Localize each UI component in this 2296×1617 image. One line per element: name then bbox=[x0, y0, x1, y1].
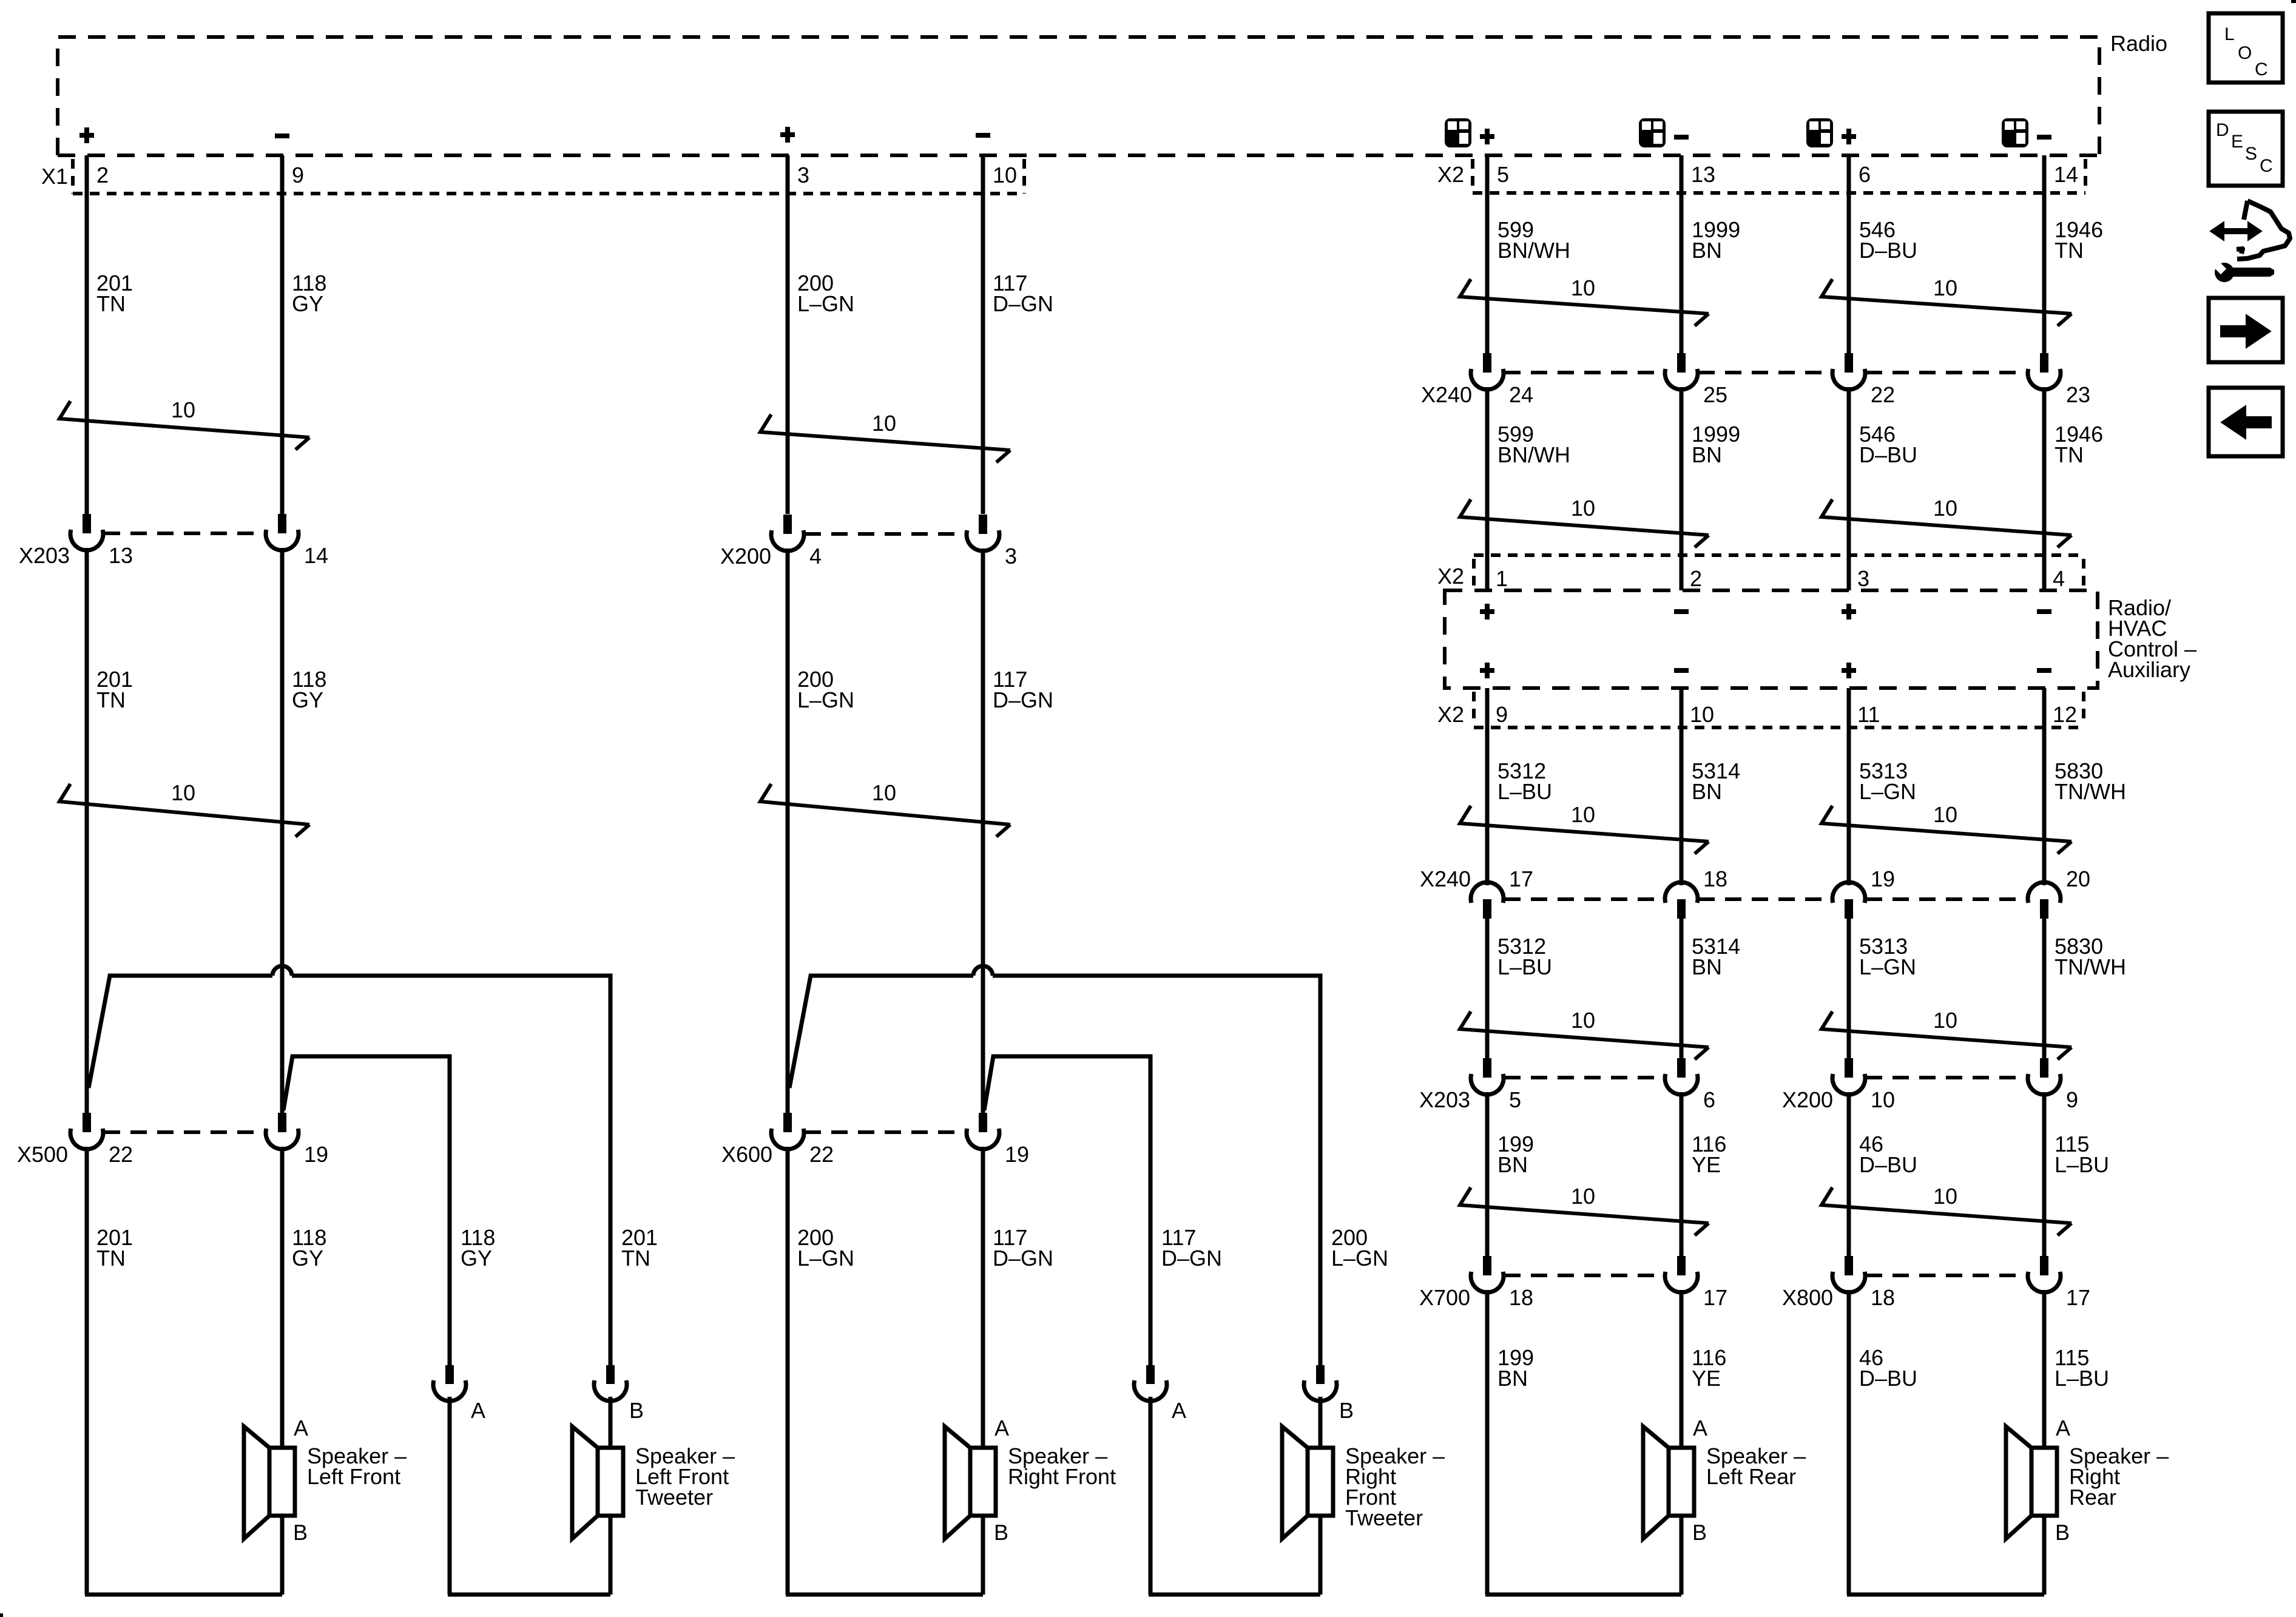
splice branch wire (117 D-GN to tweeter A) bbox=[984, 1056, 1150, 1365]
wire label 1999 BN (left rear -, seg2) bbox=[1692, 422, 1740, 467]
svg-text:A: A bbox=[1693, 1416, 1707, 1440]
splice branch wire (201 TN to tweeter B) bbox=[89, 966, 610, 1365]
icon back arrow box bbox=[2209, 388, 2283, 456]
svg-text:A: A bbox=[294, 1416, 308, 1440]
wire label 117 D–GN (RF tweeter A stub) bbox=[1161, 1225, 1222, 1271]
wire 200 L-GN (X1-3 to X200-4) bbox=[786, 155, 790, 514]
wire label 116 YE (left rear -, seg4) bbox=[1692, 1345, 1726, 1391]
svg-text:9: 9 bbox=[292, 163, 304, 187]
svg-text:GY: GY bbox=[292, 291, 323, 316]
inline connector X203 (pins 5/6) bbox=[1419, 1058, 1715, 1112]
wire 5314 BN (X240-18 down) bbox=[1680, 919, 1684, 1058]
wire label 5830 TN/WH (aux right rear -, seg1) bbox=[2055, 758, 2126, 804]
connector X2 label bbox=[1437, 162, 1464, 187]
wire label 5312 L–BU (aux left rear +, seg1) bbox=[1497, 758, 1552, 804]
wire 116 YE (X700-17 to speaker LR A) bbox=[1680, 1290, 1684, 1447]
pin 10 label bbox=[1690, 702, 1714, 727]
wire 118 GY (X203-14 to X500-19) bbox=[280, 548, 285, 1113]
inline connector X203 (pins 13/14) bbox=[19, 514, 328, 568]
icon forward arrow box bbox=[2209, 298, 2283, 362]
svg-text:X2: X2 bbox=[1437, 564, 1464, 589]
wire label 116 YE (left rear -, seg3) bbox=[1692, 1132, 1726, 1177]
svg-text:A: A bbox=[1172, 1398, 1186, 1423]
pin 1 label bbox=[1496, 566, 1508, 591]
splice branch wire (118 GY to tweeter A) bbox=[283, 1056, 450, 1365]
inline connector X600 (pins 22/19) bbox=[721, 1113, 1029, 1167]
wire 115 L-BU (X200-9 to X800-17) bbox=[2042, 1092, 2047, 1256]
wire label 115 L–BU (right rear -, seg4) bbox=[2055, 1345, 2109, 1391]
connector X2 body (dotted) bbox=[1473, 159, 2085, 193]
wire label 200 L–GN (right front +, middle) bbox=[797, 667, 854, 712]
pin 4 label bbox=[2053, 566, 2065, 591]
radio + terminal (left front +) bbox=[79, 127, 94, 143]
svg-text:17: 17 bbox=[1703, 1285, 1727, 1310]
svg-text:YE: YE bbox=[1692, 1366, 1721, 1391]
wire label 201 TN (left front +, upper) bbox=[96, 271, 133, 316]
wire 201 TN (X203-13 to X500-22) bbox=[85, 548, 89, 1113]
svg-text:19: 19 bbox=[304, 1142, 328, 1167]
wire 5314 BN (X2-10 down) bbox=[1680, 727, 1684, 885]
svg-text:X2: X2 bbox=[1437, 162, 1464, 187]
pin 13 label (X2) bbox=[1691, 162, 1715, 187]
icon DESC box bbox=[2209, 112, 2283, 186]
svg-text:D–GN: D–GN bbox=[1161, 1246, 1222, 1271]
wire stub X2-1 to HVAC bbox=[1485, 555, 1490, 590]
svg-text:E: E bbox=[2231, 132, 2243, 152]
pin 11 label bbox=[1857, 702, 1880, 727]
wire speaker RR bottom loop bbox=[1847, 1516, 2044, 1595]
svg-text:X200: X200 bbox=[720, 544, 771, 569]
svg-text:10: 10 bbox=[993, 163, 1017, 187]
svg-text:B: B bbox=[1692, 1520, 1707, 1545]
svg-text:S: S bbox=[2245, 144, 2257, 164]
svg-text:L–BU: L–BU bbox=[2055, 1152, 2109, 1177]
inline connector X700 (pins 18/17) bbox=[1419, 1256, 1727, 1310]
wire 201 TN (X1-2 to X203-13) bbox=[85, 155, 89, 514]
svg-text:C: C bbox=[2260, 156, 2273, 176]
svg-text:10: 10 bbox=[1571, 275, 1595, 300]
wire label 1999 BN (left rear -, seg1) bbox=[1692, 217, 1740, 263]
wire label 46 D–BU (right rear +, seg3) bbox=[1859, 1132, 1917, 1177]
connector X2 (HVAC top, dotted) bbox=[1474, 555, 2085, 587]
svg-text:X2: X2 bbox=[1437, 702, 1464, 727]
radio + terminal (right front +) bbox=[780, 127, 795, 143]
terminal B ring at x=2176 bbox=[1304, 1365, 1354, 1423]
svg-text:10: 10 bbox=[1933, 1184, 1957, 1209]
svg-text:TN/WH: TN/WH bbox=[2055, 779, 2126, 804]
speaker Left Front Tweeter bbox=[572, 1426, 735, 1539]
wire 5830 TN/WH (X2-12 down) bbox=[2042, 727, 2047, 885]
svg-text:B: B bbox=[994, 1520, 1008, 1545]
svg-text:10: 10 bbox=[1933, 802, 1957, 827]
inline connector X240 (pins 17/18/19/20) bbox=[1420, 866, 2090, 919]
terminal A ring at x=1896 bbox=[1134, 1365, 1186, 1423]
svg-text:23: 23 bbox=[2066, 382, 2090, 407]
svg-text:13: 13 bbox=[109, 543, 133, 568]
wire 1946 TN (X2-14 to X240-23) bbox=[2042, 155, 2047, 353]
wire 200 L-GN (X600-22 to speaker RF B) bbox=[786, 1147, 790, 1595]
svg-text:D: D bbox=[2216, 120, 2229, 140]
page dot artifact bottom-left bbox=[0, 1613, 3, 1617]
svg-text:10: 10 bbox=[171, 397, 195, 422]
svg-text:20: 20 bbox=[2066, 866, 2090, 891]
svg-text:14: 14 bbox=[2054, 162, 2078, 187]
svg-text:10: 10 bbox=[1571, 1008, 1595, 1033]
svg-text:10: 10 bbox=[1571, 802, 1595, 827]
wire label 199 BN (left rear +, seg4) bbox=[1497, 1345, 1534, 1391]
wire label 200 L–GN (RF tweeter B stub) bbox=[1331, 1225, 1388, 1271]
twisted-pair crossing right pair A lower bbox=[1460, 1184, 1709, 1235]
pin 12 label bbox=[2053, 702, 2077, 727]
svg-text:6: 6 bbox=[1703, 1087, 1715, 1112]
svg-text:D–BU: D–BU bbox=[1859, 238, 1917, 263]
wire label 117 D–GN (right front -, middle) bbox=[993, 667, 1053, 712]
svg-text:BN: BN bbox=[1692, 442, 1722, 467]
page dot artifact top-right bbox=[2291, 0, 2296, 3]
wire RF tweeter A stub down bbox=[1149, 1397, 1153, 1595]
wire label 201 TN (left front +, lower) bbox=[96, 1225, 133, 1271]
svg-text:22: 22 bbox=[809, 1142, 834, 1167]
HVAC + (pin9) bbox=[1480, 663, 1494, 678]
inline connector X500 (pins 22/19) bbox=[17, 1113, 328, 1167]
svg-text:TN: TN bbox=[96, 291, 126, 316]
svg-text:BN: BN bbox=[1692, 779, 1722, 804]
radio + terminal (right rear +) bbox=[1842, 129, 1856, 144]
wire stub HVAC to X2-12 bbox=[2042, 688, 2047, 727]
svg-text:22: 22 bbox=[1871, 382, 1895, 407]
HVAC - (pin2) bbox=[1674, 609, 1689, 614]
svg-text:L–GN: L–GN bbox=[797, 1246, 854, 1271]
svg-text:Radio: Radio bbox=[2110, 31, 2167, 56]
svg-text:X800: X800 bbox=[1782, 1285, 1833, 1310]
wire 46 D-BU (X200-10 to X800-18) bbox=[1847, 1092, 1851, 1256]
wire 201 TN (X500-22 to speaker LF B) bbox=[85, 1147, 89, 1595]
twisted-pair crossing middle pair upper bbox=[760, 411, 1010, 462]
svg-text:5: 5 bbox=[1497, 162, 1509, 187]
wire speaker LR bottom loop bbox=[1485, 1516, 1681, 1595]
wire label 546 D–BU (right rear +, seg1) bbox=[1859, 217, 1917, 263]
svg-text:GY: GY bbox=[292, 687, 323, 712]
svg-text:L–BU: L–BU bbox=[1497, 779, 1552, 804]
component label Radio/HVAC Control - Auxiliary bbox=[2108, 595, 2196, 682]
svg-text:X700: X700 bbox=[1419, 1285, 1470, 1310]
svg-text:BN: BN bbox=[1692, 954, 1722, 979]
svg-text:2: 2 bbox=[1690, 566, 1702, 591]
svg-text:3: 3 bbox=[1857, 566, 1869, 591]
svg-text:L–GN: L–GN bbox=[797, 291, 854, 316]
wire label 1946 TN (right rear -, seg1) bbox=[2055, 217, 2103, 263]
wire RF tweeter B stub to tweeter top bbox=[1319, 1397, 1323, 1447]
HVAC - (pin10) bbox=[1674, 668, 1689, 673]
svg-text:C: C bbox=[2255, 59, 2268, 79]
continuation icon (pin14) bbox=[2002, 118, 2028, 147]
svg-text:9: 9 bbox=[1496, 702, 1508, 727]
svg-text:10: 10 bbox=[1690, 702, 1714, 727]
svg-text:3: 3 bbox=[1005, 544, 1017, 569]
wire label 5314 BN (aux left rear -, seg1) bbox=[1692, 758, 1740, 804]
wire label 5313 L–GN (aux right rear +, seg2) bbox=[1859, 934, 1916, 979]
svg-text:TN: TN bbox=[621, 1246, 650, 1271]
continuation icon (pin5) bbox=[1445, 118, 1471, 147]
svg-text:17: 17 bbox=[2066, 1285, 2090, 1310]
svg-text:B: B bbox=[1339, 1398, 1354, 1423]
svg-text:A: A bbox=[471, 1398, 485, 1423]
radio - terminal (left rear -) bbox=[1674, 135, 1689, 140]
svg-text:BN/WH: BN/WH bbox=[1497, 238, 1570, 263]
twisted-pair crossing right pair B mid3 bbox=[1822, 1008, 2071, 1059]
twisted-pair crossing right pair B mid2 bbox=[1822, 802, 2071, 854]
wire 199 BN (X700-18 to speaker LR B) bbox=[1485, 1290, 1490, 1595]
wire label 1946 TN (right rear -, seg2) bbox=[2055, 422, 2103, 467]
wire label 546 D–BU (right rear +, seg2) bbox=[1859, 422, 1917, 467]
wire 1999 BN (X2-13 to X240-25) bbox=[1680, 155, 1684, 353]
wire 115 L-BU (X800-17 to speaker RR A) bbox=[2042, 1290, 2047, 1447]
wire label 5313 L–GN (aux right rear +, seg1) bbox=[1859, 758, 1916, 804]
svg-text:10: 10 bbox=[1871, 1087, 1895, 1112]
wire 5312 L-BU (X2-9 down) bbox=[1485, 727, 1490, 885]
svg-text:D–BU: D–BU bbox=[1859, 442, 1917, 467]
svg-text:Right Front: Right Front bbox=[1008, 1464, 1116, 1489]
svg-text:BN: BN bbox=[1497, 1366, 1528, 1391]
wire 599 BN/WH (X240-24 to X2-1) bbox=[1485, 387, 1490, 590]
wire tweeter B stub to tweeter top bbox=[609, 1397, 613, 1447]
icon LOC box bbox=[2209, 13, 2283, 83]
wire label 118 GY (left front -, middle) bbox=[292, 667, 326, 712]
radio - terminal (right front -) bbox=[976, 133, 990, 138]
component Radio/HVAC Control - Auxiliary (dashed box) bbox=[1445, 590, 2098, 688]
HVAC + (pin3) bbox=[1842, 604, 1856, 619]
connector X2 label (HVAC bottom) bbox=[1437, 702, 1464, 727]
wire label 5314 BN (aux left rear -, seg2) bbox=[1692, 934, 1740, 979]
wire 1946 TN (X240-23 to X2-4) bbox=[2042, 387, 2047, 590]
wire label 5830 TN/WH (aux right rear -, seg2) bbox=[2055, 934, 2126, 979]
svg-text:10: 10 bbox=[1933, 496, 1957, 521]
svg-text:5: 5 bbox=[1509, 1087, 1521, 1112]
svg-text:D–GN: D–GN bbox=[993, 1246, 1053, 1271]
HVAC - (pin12) bbox=[2037, 668, 2051, 673]
svg-text:B: B bbox=[629, 1398, 644, 1423]
twisted-pair crossing right pair A upper bbox=[1460, 275, 1709, 326]
pin 3 label bbox=[1857, 566, 1869, 591]
twisted-pair crossing right pair B mid1 bbox=[1822, 496, 2071, 547]
wire label 118 GY (tweeter A stub) bbox=[461, 1225, 495, 1271]
svg-text:BN: BN bbox=[1692, 238, 1722, 263]
speaker Right Front Tweeter bbox=[1282, 1426, 1445, 1539]
svg-text:Left Rear: Left Rear bbox=[1706, 1464, 1796, 1489]
svg-text:2: 2 bbox=[96, 163, 109, 187]
wire label 118 GY (left front -, lower) bbox=[292, 1225, 326, 1271]
twisted-pair crossing left pair upper bbox=[59, 397, 309, 450]
pin 9 label bbox=[1496, 702, 1508, 727]
wire tweeter LF bottom loop bbox=[448, 1516, 610, 1595]
svg-text:Left Front: Left Front bbox=[307, 1464, 400, 1489]
continuation icon (pin6) bbox=[1806, 118, 1833, 147]
wire 5830 TN/WH (X240-20 down) bbox=[2042, 919, 2047, 1058]
wire 5312 L-BU (X240-17 down) bbox=[1485, 919, 1490, 1058]
wire RF tweeter bottom loop bbox=[1149, 1516, 1320, 1595]
wire 118 GY (X500-19 to speaker LF A) bbox=[280, 1147, 285, 1447]
wire 117 D-GN (X600-19 to speaker RF A) bbox=[981, 1147, 985, 1447]
speaker Left Front bbox=[244, 1416, 407, 1545]
speaker Right Front bbox=[945, 1416, 1116, 1545]
wire label 117 D–GN (right front -, lower) bbox=[993, 1225, 1053, 1271]
radio - terminal (right rear -) bbox=[2037, 135, 2051, 140]
pin 2 label bbox=[1690, 566, 1702, 591]
svg-text:D–BU: D–BU bbox=[1859, 1152, 1917, 1177]
wire stub HVAC to X2-11 bbox=[1847, 688, 1851, 727]
wire stub X2-2 to HVAC bbox=[1680, 555, 1684, 590]
svg-text:TN: TN bbox=[2055, 238, 2084, 263]
wire 5313 L-GN (X240-19 down) bbox=[1847, 919, 1851, 1058]
speaker Right Rear bbox=[2006, 1416, 2169, 1545]
wire label 118 GY (left front -, upper) bbox=[292, 271, 326, 316]
svg-text:19: 19 bbox=[1871, 866, 1895, 891]
svg-text:L–BU: L–BU bbox=[1497, 954, 1552, 979]
svg-text:X203: X203 bbox=[1419, 1087, 1470, 1112]
twisted-pair crossing right pair A mid1 bbox=[1460, 496, 1709, 547]
wire label 201 TN (tweeter B stub) bbox=[621, 1225, 658, 1271]
svg-text:X200: X200 bbox=[1782, 1087, 1833, 1112]
svg-text:O: O bbox=[2238, 43, 2252, 63]
svg-text:25: 25 bbox=[1703, 382, 1727, 407]
svg-text:YE: YE bbox=[1692, 1152, 1721, 1177]
twisted-pair crossing left pair lower bbox=[59, 780, 309, 837]
pin 5 label (X2) bbox=[1497, 162, 1509, 187]
svg-text:TN: TN bbox=[2055, 442, 2084, 467]
wire label 117 D–GN (right front -, upper) bbox=[993, 271, 1053, 316]
inline connector X800 (pins 18/17) bbox=[1782, 1256, 2090, 1310]
inline connector X240 (pins 24/25/22/23) bbox=[1421, 353, 2090, 407]
svg-text:X240: X240 bbox=[1420, 866, 1471, 891]
radio - terminal (left front -) bbox=[275, 133, 289, 138]
twisted-pair crossing right pair A mid2 bbox=[1460, 802, 1709, 854]
svg-text:Tweeter: Tweeter bbox=[1345, 1505, 1423, 1530]
svg-text:X600: X600 bbox=[721, 1142, 772, 1167]
svg-text:17: 17 bbox=[1509, 866, 1533, 891]
radio + terminal (left rear +) bbox=[1480, 129, 1494, 144]
svg-text:4: 4 bbox=[809, 544, 822, 569]
wire label 115 L–BU (right rear -, seg3) bbox=[2055, 1132, 2109, 1177]
svg-text:L–GN: L–GN bbox=[1859, 779, 1916, 804]
svg-text:GY: GY bbox=[461, 1246, 492, 1271]
wire stub HVAC to X2-9 bbox=[1485, 688, 1490, 727]
svg-text:L–GN: L–GN bbox=[797, 687, 854, 712]
twisted-pair crossing right pair B upper bbox=[1822, 275, 2071, 326]
wire label 200 L–GN (right front +, lower) bbox=[797, 1225, 854, 1271]
wire label 199 BN (left rear +, seg3) bbox=[1497, 1132, 1534, 1177]
splice branch wire (200 L-GN to tweeter B) bbox=[789, 966, 1320, 1365]
svg-text:10: 10 bbox=[1933, 275, 1957, 300]
svg-text:24: 24 bbox=[1509, 382, 1533, 407]
icon service/repair (double arrow, outline, wrench) bbox=[2210, 201, 2290, 282]
terminal A ring at x=741 bbox=[433, 1365, 485, 1423]
svg-text:13: 13 bbox=[1691, 162, 1715, 187]
HVAC + (pin1) bbox=[1480, 604, 1494, 619]
wire 5313 L-GN (X2-11 down) bbox=[1847, 727, 1851, 885]
wire label 599 BN/WH (left rear +, seg1) bbox=[1497, 217, 1570, 263]
inline connector X200 (pins 4/3) bbox=[720, 515, 1017, 569]
wire 46 D-BU (X800-18 to speaker RR B) bbox=[1847, 1290, 1851, 1595]
svg-text:10: 10 bbox=[1571, 496, 1595, 521]
svg-text:11: 11 bbox=[1857, 702, 1880, 727]
svg-text:6: 6 bbox=[1859, 162, 1871, 187]
terminal B ring at x=1006 bbox=[594, 1365, 644, 1423]
component label Radio bbox=[2110, 31, 2167, 56]
wire 546 D-BU (X240-22 to X2-3) bbox=[1847, 387, 1851, 590]
wire label 200 L–GN (right front +, upper) bbox=[797, 271, 854, 316]
inline connector X200 (pins 10/9) bbox=[1782, 1058, 2078, 1112]
svg-text:X240: X240 bbox=[1421, 382, 1472, 407]
wire 118 GY (X1-9 to X203-14) bbox=[280, 155, 285, 514]
svg-text:A: A bbox=[994, 1416, 1009, 1440]
pin 3 label (X1) bbox=[797, 163, 809, 187]
pin 14 label (X2) bbox=[2054, 162, 2078, 187]
svg-text:TN: TN bbox=[96, 687, 126, 712]
svg-text:1: 1 bbox=[1496, 566, 1508, 591]
svg-text:3: 3 bbox=[797, 163, 809, 187]
svg-text:18: 18 bbox=[1509, 1285, 1533, 1310]
speaker Left Rear bbox=[1643, 1416, 1806, 1545]
svg-text:12: 12 bbox=[2053, 702, 2077, 727]
twisted-pair crossing right pair B lower bbox=[1822, 1184, 2071, 1235]
connector X2 label (HVAC top) bbox=[1437, 564, 1464, 589]
pin 9 label (X1) bbox=[292, 163, 304, 187]
wire 1999 BN (X240-25 to X2-2) bbox=[1680, 387, 1684, 590]
wire tweeter A stub down bbox=[448, 1397, 452, 1595]
connector X2 (HVAC bottom, dotted) bbox=[1474, 692, 2085, 727]
wire 546 D-BU (X2-6 to X240-22) bbox=[1847, 155, 1851, 353]
svg-text:19: 19 bbox=[1005, 1142, 1029, 1167]
wire speaker RF bottom loop bbox=[786, 1516, 983, 1595]
svg-text:L–GN: L–GN bbox=[1859, 954, 1916, 979]
svg-text:14: 14 bbox=[304, 543, 328, 568]
wire label 46 D–BU (right rear +, seg4) bbox=[1859, 1345, 1917, 1391]
wire 199 BN (X203-5 to X700-18) bbox=[1485, 1092, 1490, 1256]
svg-text:10: 10 bbox=[872, 411, 896, 436]
svg-text:D–GN: D–GN bbox=[993, 291, 1053, 316]
svg-text:TN: TN bbox=[96, 1246, 126, 1271]
connector X1 body (dotted) bbox=[73, 159, 1024, 194]
svg-text:TN/WH: TN/WH bbox=[2055, 954, 2126, 979]
svg-text:X203: X203 bbox=[19, 543, 70, 568]
svg-text:L–GN: L–GN bbox=[1331, 1246, 1388, 1271]
wire 200 L-GN (X200-4 to X600-22) bbox=[786, 549, 790, 1113]
svg-text:Rear: Rear bbox=[2069, 1485, 2116, 1510]
svg-text:B: B bbox=[2055, 1520, 2070, 1545]
svg-text:4: 4 bbox=[2053, 566, 2065, 591]
wire 599 BN/WH (X2-5 to X240-24) bbox=[1485, 155, 1490, 353]
svg-text:18: 18 bbox=[1871, 1285, 1895, 1310]
HVAC - (pin4) bbox=[2037, 609, 2051, 614]
pin 10 label (X1) bbox=[993, 163, 1017, 187]
wire stub X2-3 to HVAC bbox=[1847, 555, 1851, 590]
svg-text:BN: BN bbox=[1497, 1152, 1528, 1177]
wire 117 D-GN (X200-3 to X600-19) bbox=[981, 549, 985, 1113]
svg-text:A: A bbox=[2056, 1416, 2070, 1440]
pin 2 label (X1) bbox=[96, 163, 109, 187]
svg-text:10: 10 bbox=[171, 780, 195, 805]
svg-text:BN/WH: BN/WH bbox=[1497, 442, 1570, 467]
svg-text:10: 10 bbox=[1571, 1184, 1595, 1209]
svg-text:Tweeter: Tweeter bbox=[635, 1485, 713, 1510]
wire label 201 TN (left front +, middle) bbox=[96, 667, 133, 712]
wire speaker LF bottom loop bbox=[85, 1516, 282, 1595]
svg-text:9: 9 bbox=[2066, 1087, 2078, 1112]
HVAC + (pin11) bbox=[1842, 663, 1856, 678]
svg-text:L: L bbox=[2224, 24, 2235, 44]
svg-text:L–BU: L–BU bbox=[2055, 1366, 2109, 1391]
svg-text:B: B bbox=[293, 1520, 308, 1545]
